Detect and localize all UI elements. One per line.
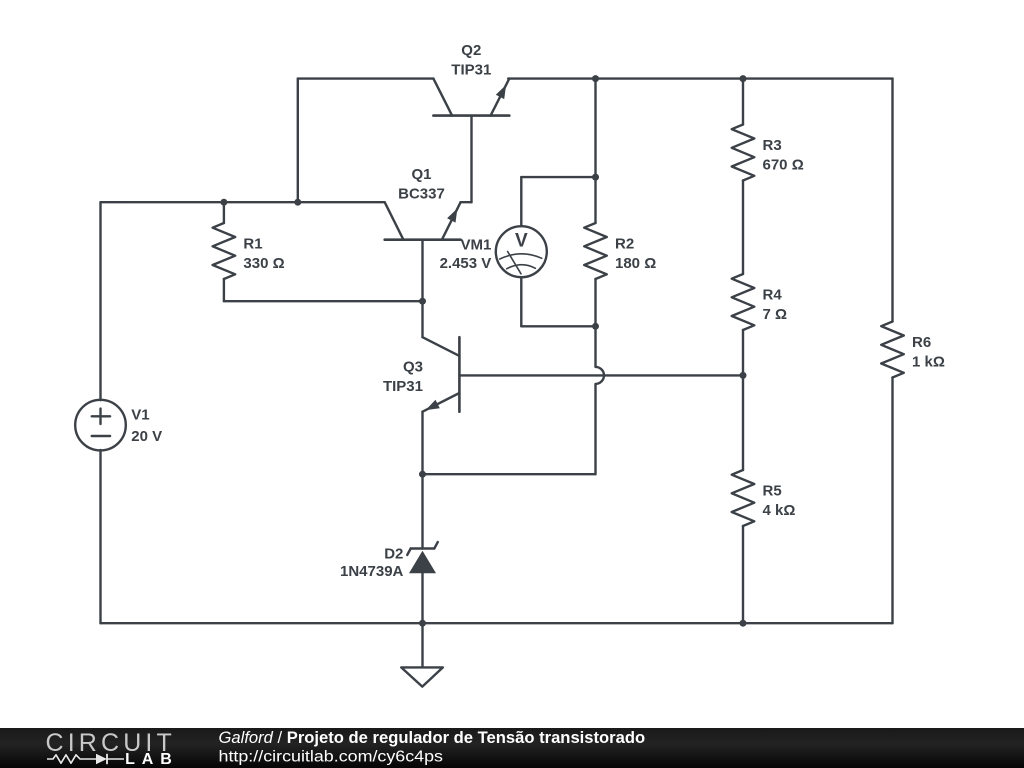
resistor R1: [213, 223, 285, 279]
svg-text:LAB: LAB: [125, 751, 172, 768]
svg-text:7 Ω: 7 Ω: [763, 306, 788, 323]
junction bottom rail / R5: [740, 620, 747, 627]
CircuitLab logo: [46, 729, 172, 768]
svg-text:1 kΩ: 1 kΩ: [912, 354, 945, 371]
wire D2 bottom lead: [421, 573, 423, 623]
resistor R6: [881, 322, 945, 378]
svg-text:2.453 V: 2.453 V: [440, 255, 492, 272]
wire right vertical bottom (R6 to ground rail): [891, 378, 893, 624]
wire R4 bottom lead: [742, 330, 744, 375]
svg-text:R5: R5: [763, 483, 782, 500]
resistor R4: [732, 274, 787, 330]
wire R1 bottom lead: [223, 279, 225, 301]
transistor Q1 (BC337 NPN): [385, 166, 461, 240]
svg-text:R4: R4: [763, 287, 783, 304]
wire R3-R4 link: [742, 181, 744, 275]
svg-text:180 Ω: 180 Ω: [615, 255, 656, 272]
junction top rail / R3: [740, 75, 747, 82]
wire Q3 collector lead: [421, 301, 423, 337]
svg-text:TIP31: TIP31: [451, 62, 491, 79]
wire Q1 base to R1 node: [421, 240, 423, 302]
resistor R2: [584, 223, 656, 279]
wire bottom rail (ground net): [101, 622, 893, 624]
svg-text:http://circuitlab.com/cy6c4ps: http://circuitlab.com/cy6c4ps: [219, 749, 444, 766]
svg-text:20 V: 20 V: [131, 428, 162, 445]
junction Q1 base / R1 / Q3 collector: [419, 298, 426, 305]
svg-text:V1: V1: [131, 407, 149, 424]
voltage source V1 (20 V): [75, 400, 162, 451]
junction mid rail / left vertical: [294, 199, 301, 206]
wire R5 top lead: [742, 375, 744, 470]
ground: [401, 667, 443, 686]
svg-text:R3: R3: [763, 137, 782, 154]
resistor R3: [732, 125, 804, 181]
wire mid rail (V1+ to Q1 collector): [101, 201, 385, 203]
zener diode D2 (1N4739A): [340, 542, 438, 580]
junction bottom rail / D2 / ground: [419, 620, 426, 627]
wire R5 bottom lead: [742, 526, 744, 623]
wire left vertical (collector tie): [297, 79, 299, 203]
svg-text:D2: D2: [384, 546, 403, 563]
wire R3 top lead: [742, 79, 744, 125]
wire top rail right (Q2 emitter output rail): [508, 77, 892, 79]
svg-text:BC337: BC337: [398, 186, 445, 203]
junction mid rail / R1: [220, 199, 227, 206]
junction Q3 base / divider: [740, 372, 747, 379]
svg-text:V: V: [515, 231, 528, 252]
footer bar: [0, 728, 1024, 768]
junction Q3 emitter / D2: [419, 471, 426, 478]
wire Q3 base to divider node: [459, 374, 743, 376]
wire VM1 top lead: [521, 177, 595, 226]
wire R2 bottom lead: [594, 279, 596, 326]
transistor Q3 (TIP31 NPN): [383, 337, 459, 412]
wire R2 top lead from top rail: [594, 79, 596, 223]
resistor R5: [732, 470, 796, 526]
wire R1 top lead: [223, 202, 225, 223]
wire Q3 emitter lead down: [421, 412, 423, 475]
wire D2 top lead: [421, 474, 423, 548]
voltmeter VM1 (2.453 V): [440, 226, 547, 277]
junction top rail / R2: [592, 75, 599, 82]
transistor Q2 (TIP31 NPN): [433, 42, 509, 116]
svg-text:Q3: Q3: [403, 359, 423, 376]
wire V1 top lead: [99, 202, 101, 400]
svg-text:330 Ω: 330 Ω: [243, 255, 284, 272]
svg-text:670 Ω: 670 Ω: [763, 157, 804, 174]
svg-text:R2: R2: [615, 236, 634, 253]
wire right vertical top (to R6): [891, 79, 893, 322]
footer url text: [219, 749, 444, 766]
svg-text:R6: R6: [912, 334, 931, 351]
wire Q3 emitter to feedback corner: [423, 473, 596, 475]
wire V1 bottom lead: [99, 450, 101, 623]
svg-text:Q1: Q1: [411, 166, 431, 183]
wire feedback vertical with hop: [596, 326, 605, 474]
wire top rail left (Q1/Q2 collectors to input): [298, 77, 434, 79]
svg-text:1N4739A: 1N4739A: [340, 563, 404, 580]
svg-text:R1: R1: [243, 236, 262, 253]
svg-text:Q2: Q2: [461, 42, 481, 59]
svg-text:4 kΩ: 4 kΩ: [763, 502, 796, 519]
junction VM1 bottom / R2 bottom: [592, 323, 599, 330]
wire R1 bottom to Q1 base node: [224, 300, 423, 302]
wire Q2 base to Q1 emitter jog: [461, 116, 472, 203]
svg-text:VM1: VM1: [460, 237, 491, 254]
svg-text:TIP31: TIP31: [383, 378, 423, 395]
svg-text:Galford / Projeto de regulador: Galford / Projeto de regulador de Tensão…: [219, 728, 646, 747]
footer title text: [219, 728, 646, 747]
wire ground stub: [421, 623, 423, 667]
wire VM1 bottom lead: [521, 277, 595, 326]
junction VM1 top / R2 top: [592, 174, 599, 181]
